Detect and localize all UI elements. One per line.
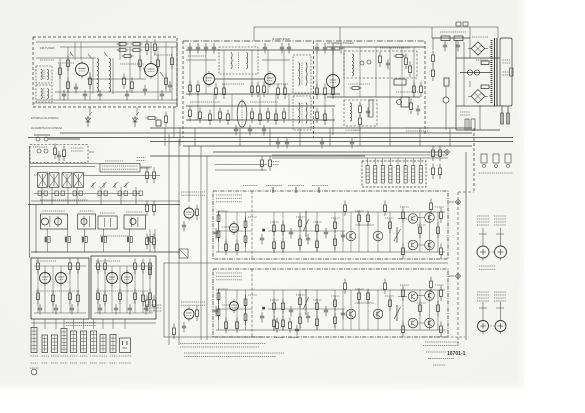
box A labels xyxy=(36,260,56,262)
resistor R17 xyxy=(67,56,70,72)
section divider dash-dot line xyxy=(183,40,425,42)
AM contact row wire xyxy=(34,193,140,195)
tuner part labels d xyxy=(154,54,172,56)
AM contact K3 xyxy=(55,191,58,196)
IF section left dashed border xyxy=(182,41,184,137)
AF part labels b xyxy=(348,83,370,85)
date line xyxy=(433,364,445,366)
resistor R73 xyxy=(54,144,57,160)
box 2 transistor d xyxy=(425,291,435,301)
phono preamp 1 label xyxy=(181,192,205,195)
volume label xyxy=(312,185,328,187)
box B vertical wire x=135 xyxy=(134,266,136,313)
treble label xyxy=(266,185,282,187)
tube socket strip P3 xyxy=(52,335,58,353)
line filter box 1 xyxy=(456,22,461,26)
box 2 volume pot xyxy=(394,305,401,321)
box 2 junction dot xyxy=(262,307,265,310)
fuse F2 box xyxy=(444,78,449,86)
box A bottom rail xyxy=(34,312,86,314)
switch section S4 xyxy=(389,158,392,183)
box B vertical wire x=143 xyxy=(142,266,144,313)
speaker lead 3 xyxy=(482,302,484,320)
socket label 10 xyxy=(119,355,132,357)
box B labels xyxy=(96,260,120,262)
resistor R39 xyxy=(267,108,270,124)
AM trimmer CT6 xyxy=(91,182,96,188)
IF vertical wire lower x=260 xyxy=(259,94,261,120)
tuner vertical wire x=140 xyxy=(139,42,141,79)
trafo lead at x=42 xyxy=(41,187,43,205)
mains transformer T6 winding xyxy=(491,40,493,104)
socket label 4 xyxy=(61,355,69,357)
resistor R74 xyxy=(63,146,66,162)
IF transformer T3 xyxy=(219,47,258,74)
IF vertical wire lower x=232 xyxy=(231,94,233,120)
decoupling pair RC2 xyxy=(65,229,71,252)
bus tie at x=240 xyxy=(239,128,241,146)
AM tuned stage box 2 xyxy=(78,214,96,229)
resistor R124 xyxy=(236,318,239,334)
AF part labels a xyxy=(380,47,410,49)
line filter box 2 xyxy=(463,22,468,26)
box 1 part value label xyxy=(417,224,426,226)
tuner bottom wire xyxy=(36,99,177,101)
aux socket J3 xyxy=(505,154,511,168)
resistor R118 xyxy=(367,211,370,227)
box 1 vertical wire x=283 xyxy=(282,212,284,252)
box 2 bottom rail xyxy=(216,329,445,331)
resistor R148 xyxy=(344,279,347,295)
AM contact K1 xyxy=(38,191,41,196)
decoupling pair RC1 xyxy=(45,229,51,252)
long vertical wire W5 xyxy=(206,156,208,340)
box 1 vertical wire x=368 xyxy=(367,212,369,252)
capacitor C7 xyxy=(168,81,172,92)
AF right drop wire xyxy=(389,97,391,128)
resistor R5 xyxy=(122,55,134,58)
AM left rail xyxy=(29,146,31,258)
tuner vertical wire x=90 xyxy=(89,72,91,100)
mains transformer T6 secondary xyxy=(500,38,512,106)
IF bus wire 4 xyxy=(186,119,335,121)
mains lead 2 xyxy=(507,106,509,124)
box 2 vertical wire x=420 xyxy=(419,290,421,330)
capacitor C32 xyxy=(182,221,186,232)
tuner right wire xyxy=(176,42,178,107)
box 1 volume pot xyxy=(394,227,401,243)
tube socket strip P6 xyxy=(81,331,87,353)
legend link wire xyxy=(141,166,153,168)
resistor R58 xyxy=(439,146,442,162)
resistor R68 xyxy=(146,296,149,312)
supply wire 2 xyxy=(460,72,492,74)
X2 lead xyxy=(449,275,454,277)
AM left column wire xyxy=(35,205,37,253)
box 2 description xyxy=(216,273,242,280)
bus wire B1 xyxy=(150,127,472,129)
box 1 drive wire 3 xyxy=(417,244,425,246)
IF vertical wire x=317 xyxy=(316,50,318,94)
input pair wire upper xyxy=(215,164,267,166)
resistor R42 xyxy=(316,108,319,124)
resistor R22 xyxy=(215,84,218,100)
box 2 vertical wire x=403 xyxy=(402,290,404,330)
electrolytic capacitor C21 xyxy=(367,60,371,64)
resistor R31 xyxy=(332,84,335,100)
AM stage label 3 xyxy=(100,212,115,214)
capacitor C42 xyxy=(214,228,218,239)
loudspeaker LS1 xyxy=(477,246,489,261)
AM osc trimmer C41 xyxy=(44,149,48,153)
resistor R50 xyxy=(413,82,416,98)
resistor R132 xyxy=(299,313,302,329)
resistor R20 xyxy=(189,81,192,97)
resistor R67 xyxy=(149,264,152,280)
voltage selector pin 1 xyxy=(465,119,469,130)
comp label b xyxy=(288,337,298,339)
AM contact K12 xyxy=(139,191,142,196)
resistor R94 xyxy=(217,227,220,243)
FM antenna transformer T1 xyxy=(36,66,52,83)
IF vertical wire lower x=289 xyxy=(288,94,290,120)
box 2 vertical wire x=274 xyxy=(273,290,275,330)
mains plug pin 2 xyxy=(507,113,510,124)
tuner bottom bus wire xyxy=(33,102,177,104)
tuner vertical wire x=60 xyxy=(59,58,61,100)
AF vertical wire x=414 xyxy=(413,47,415,97)
strip feed wire x=125 xyxy=(124,319,126,329)
IF part labels e xyxy=(250,101,278,103)
resistor R14 xyxy=(157,56,160,72)
box 1 part value label xyxy=(400,206,409,208)
IF part labels b xyxy=(222,83,244,85)
mains lead 1 xyxy=(501,106,503,124)
svg-text:LOUDSPEAKER: LOUDSPEAKER xyxy=(345,129,361,132)
box 2 inner divider xyxy=(251,269,253,337)
socket label 6 xyxy=(80,355,88,357)
capacitor C25 xyxy=(416,105,420,116)
bridge2 out wire xyxy=(489,95,492,97)
IF amp tube V4 xyxy=(265,71,276,87)
svg-text:10701-1: 10701-1 xyxy=(447,351,466,357)
box 1 vertical wire x=237 xyxy=(236,212,238,252)
relay box xyxy=(156,120,161,126)
socket label row2 10 xyxy=(119,362,131,364)
antenna terminal A1 xyxy=(36,137,40,141)
box 2 vertical wire x=429.5 xyxy=(429,290,431,330)
box 2 vertical wire x=226 xyxy=(225,290,227,330)
speaker terminal 2 xyxy=(496,233,504,235)
resistor R79 xyxy=(52,291,55,307)
power labels c xyxy=(460,112,470,115)
resistor R111 xyxy=(402,244,405,260)
AM contact K2 xyxy=(44,191,47,196)
resistor R48 xyxy=(359,102,362,118)
box 1 vertical wire x=403 xyxy=(402,212,404,252)
resistor R43 xyxy=(324,110,327,126)
AM tuned stage box 1 xyxy=(40,214,67,229)
resistor R75 xyxy=(37,259,40,275)
box 2 vertical wire x=343 xyxy=(342,290,344,330)
resistor R130 xyxy=(282,316,285,332)
strip feed wire x=103 xyxy=(102,319,104,329)
box 1 transistor e xyxy=(408,240,418,250)
bus tie at x=390 xyxy=(389,128,391,146)
box 1 vertical wire x=343 xyxy=(342,212,344,252)
resistor R127 xyxy=(273,299,276,315)
AM trimmer CT7 xyxy=(102,182,107,188)
FM tuner enclosure dashed box xyxy=(33,37,177,107)
resistor R88 xyxy=(104,291,107,307)
tuner vertical wire x=158 xyxy=(157,47,159,100)
resistor R30 xyxy=(324,84,327,100)
resistor box R41 xyxy=(454,36,463,41)
box 2 vertical wire x=390 xyxy=(389,290,391,330)
box B labels 2 xyxy=(96,290,148,292)
resistor R61 xyxy=(146,168,149,184)
capacitor C49 xyxy=(260,312,264,323)
output terminal X2 xyxy=(455,273,460,278)
box 2 vertical wire x=245.5 xyxy=(245,290,247,330)
resistor R146 xyxy=(367,289,370,305)
resistor R45 xyxy=(405,54,408,70)
IF bus wire 3 xyxy=(186,105,335,107)
box 1 part value label xyxy=(435,206,444,208)
box B vertical wire x=112 xyxy=(111,266,113,313)
resistor R47 xyxy=(409,62,412,78)
phono preamp 2 label xyxy=(181,302,205,305)
top wire drop 3 xyxy=(431,27,433,38)
socket label row2 8 xyxy=(100,362,107,364)
socket label row2 2 xyxy=(42,362,49,364)
resistor R83 xyxy=(104,259,107,275)
AM contact K10 xyxy=(124,191,127,196)
resistor R37 xyxy=(251,108,254,124)
resistor R100 xyxy=(282,221,285,237)
switch section S3 xyxy=(381,158,384,183)
resistor R21 xyxy=(197,81,200,97)
AM IF transformer can T8 xyxy=(49,173,59,188)
coil side wire 2 xyxy=(112,58,114,94)
box A labels 2 xyxy=(36,290,80,292)
AM part labels c xyxy=(34,174,37,176)
resistor R30 xyxy=(350,87,362,90)
power labels a xyxy=(440,31,466,33)
resistor R135 xyxy=(334,296,337,312)
AF vertical wire x=360 xyxy=(359,47,361,97)
box 2 mid wire b xyxy=(268,308,345,310)
resistor R51 xyxy=(420,82,423,98)
transformer voltage label xyxy=(503,60,511,63)
resistor R120 xyxy=(344,201,347,217)
IF bus wire 2 xyxy=(186,93,340,95)
bus tie at x=420 xyxy=(419,128,421,146)
left extension wire xyxy=(163,263,165,337)
resistor R41 xyxy=(283,108,286,124)
lamp wire 2 xyxy=(445,103,447,130)
AM wire a xyxy=(30,163,100,165)
resistor R44 xyxy=(394,55,406,58)
resistor R40 xyxy=(275,110,278,126)
mains plug pin 1 xyxy=(501,113,504,124)
box B vertical wire x=150 xyxy=(149,266,151,313)
legend link wire xyxy=(140,167,150,169)
speaker label block 1a xyxy=(477,216,489,225)
resistor R96 xyxy=(236,240,239,256)
legend side note xyxy=(137,158,146,161)
power left wire xyxy=(455,40,457,130)
capacitor C41 xyxy=(144,304,148,315)
capacitor C48 xyxy=(214,306,218,317)
AM trimmer CT9 xyxy=(124,182,129,188)
AM stage tube V14 xyxy=(55,218,62,225)
capacitor C10 xyxy=(196,43,200,54)
output transformer primary coil xyxy=(352,54,354,76)
speaker mid note xyxy=(479,266,496,269)
resistor R99 xyxy=(273,221,276,237)
box 1 vertical wire x=420 xyxy=(419,212,421,252)
switch section S8 xyxy=(419,158,422,183)
loudspeaker LS3 xyxy=(478,321,489,335)
diode feed wire 2 xyxy=(136,107,138,116)
power bottom wire xyxy=(456,129,500,131)
resistor R91 xyxy=(142,291,145,307)
diagram no label xyxy=(426,351,446,353)
box 1 transistor d xyxy=(425,213,435,223)
IF amp tube V3 xyxy=(204,71,215,87)
capacitor C44 xyxy=(289,228,293,239)
AM stage tube V15 xyxy=(81,219,87,225)
output terminal X1 xyxy=(455,199,460,204)
box 1 part value label xyxy=(385,217,394,219)
tube coupling wire xyxy=(214,78,265,80)
bus tie at x=270 xyxy=(269,128,271,146)
box B vertical wire x=120 xyxy=(119,266,121,313)
capacitor C20 xyxy=(234,125,238,136)
switch section S7 xyxy=(412,158,415,183)
switch section S5 xyxy=(396,158,399,183)
strip feed wire x=34 xyxy=(33,319,35,329)
resistor R90 xyxy=(134,289,137,305)
trafo lead at x=68 xyxy=(67,187,69,205)
page edge fade bottom xyxy=(0,378,524,392)
box 1 vertical wire x=359 xyxy=(358,212,360,252)
bus tie at x=195 xyxy=(194,128,196,146)
voltage selector pin 2 xyxy=(471,119,475,130)
bus wire B3 xyxy=(28,137,513,139)
resistor R116 xyxy=(430,199,433,215)
box2 bottom dashed continuation xyxy=(425,336,465,338)
tape label xyxy=(243,185,257,187)
box 2 vertical wire x=317 xyxy=(316,290,318,330)
resistor box R31 xyxy=(394,79,406,85)
supply wire 1 xyxy=(456,57,500,59)
AM box label xyxy=(71,148,83,151)
bus tie at x=330 xyxy=(329,128,331,146)
box 1 vertical wire x=390 xyxy=(389,212,391,252)
box 2 part value label xyxy=(248,294,257,296)
IF vertical wire lower x=198 xyxy=(197,94,199,120)
resistor R29 xyxy=(316,84,319,100)
shielded box xyxy=(179,249,188,258)
resistor R27 xyxy=(277,84,280,100)
box 1 transistor f xyxy=(425,240,435,250)
resistor R53 xyxy=(432,51,435,67)
IF part labels d xyxy=(190,101,220,103)
box 1 vertical wire x=335 xyxy=(334,212,336,252)
resistor R107 xyxy=(334,218,337,234)
diode CR2 xyxy=(133,112,140,127)
resistor R49 xyxy=(359,114,362,130)
capacitor C8 xyxy=(74,83,78,94)
AF mid wire xyxy=(327,96,420,98)
speaker label block 1b xyxy=(494,216,506,225)
box 1 vertical wire x=218.5 xyxy=(218,212,220,252)
pilot lamp E1 xyxy=(397,100,402,105)
resistor R139 xyxy=(402,322,405,338)
socket label 3 xyxy=(51,355,59,357)
resistor R82 xyxy=(97,259,100,275)
box 1 vertical wire x=226 xyxy=(225,212,227,252)
electrolytic capacitor C31 xyxy=(474,70,479,75)
bus tie at x=180 xyxy=(179,128,181,146)
bridge top labels xyxy=(472,36,488,38)
decoupling pair RC5 xyxy=(127,229,133,252)
svg-text:AM FERRITE ROD ANTENNA: AM FERRITE ROD ANTENNA xyxy=(31,127,63,130)
resistor R1 xyxy=(117,43,129,46)
IF part labels a xyxy=(188,55,206,57)
switch section S6 xyxy=(404,158,407,183)
resistor R26 xyxy=(263,82,266,98)
box 2 slider pot xyxy=(304,289,309,315)
box 2 part value label xyxy=(355,288,364,290)
aux socket J1 xyxy=(481,154,487,168)
capacitor C43 xyxy=(260,234,264,245)
tuner-AM link wire xyxy=(173,107,175,138)
note line 1 xyxy=(180,343,266,345)
box 1 vertical wire x=378 xyxy=(377,212,379,252)
tuner part labels c xyxy=(40,59,54,61)
tuner bus wire 3 xyxy=(55,91,172,93)
resistor R117 xyxy=(358,211,361,227)
tuner trimmer CT3 xyxy=(104,52,108,57)
top wire drop 4 xyxy=(469,27,471,38)
AM contact K11 xyxy=(133,191,136,196)
AM box top labels xyxy=(33,146,47,148)
box 2 transistor a xyxy=(346,309,356,319)
strip feed wire x=45 xyxy=(44,319,46,329)
strip feed wire x=113 xyxy=(112,319,114,329)
strip feed wire x=83.5 xyxy=(83,319,85,329)
box 2 vertical wire x=351 xyxy=(350,290,352,330)
right dashed border wire upper xyxy=(473,128,475,192)
AM stage label 2 xyxy=(80,210,94,212)
AM bus wire xyxy=(28,204,180,206)
resistor R62 xyxy=(153,168,156,184)
switch section S2 xyxy=(374,158,377,183)
note line 3 xyxy=(184,352,284,354)
box 1 part value label xyxy=(313,221,322,223)
box 2 part value label xyxy=(400,284,409,286)
transformer voltage label 2 xyxy=(503,72,511,75)
antenna terminal A2 xyxy=(44,137,48,141)
polarity mark 2 xyxy=(491,325,495,327)
box A vertical wire x=38 xyxy=(37,266,39,313)
resistor R143 xyxy=(440,322,443,338)
resistor R125 xyxy=(244,295,247,311)
IF wire b xyxy=(262,59,290,61)
